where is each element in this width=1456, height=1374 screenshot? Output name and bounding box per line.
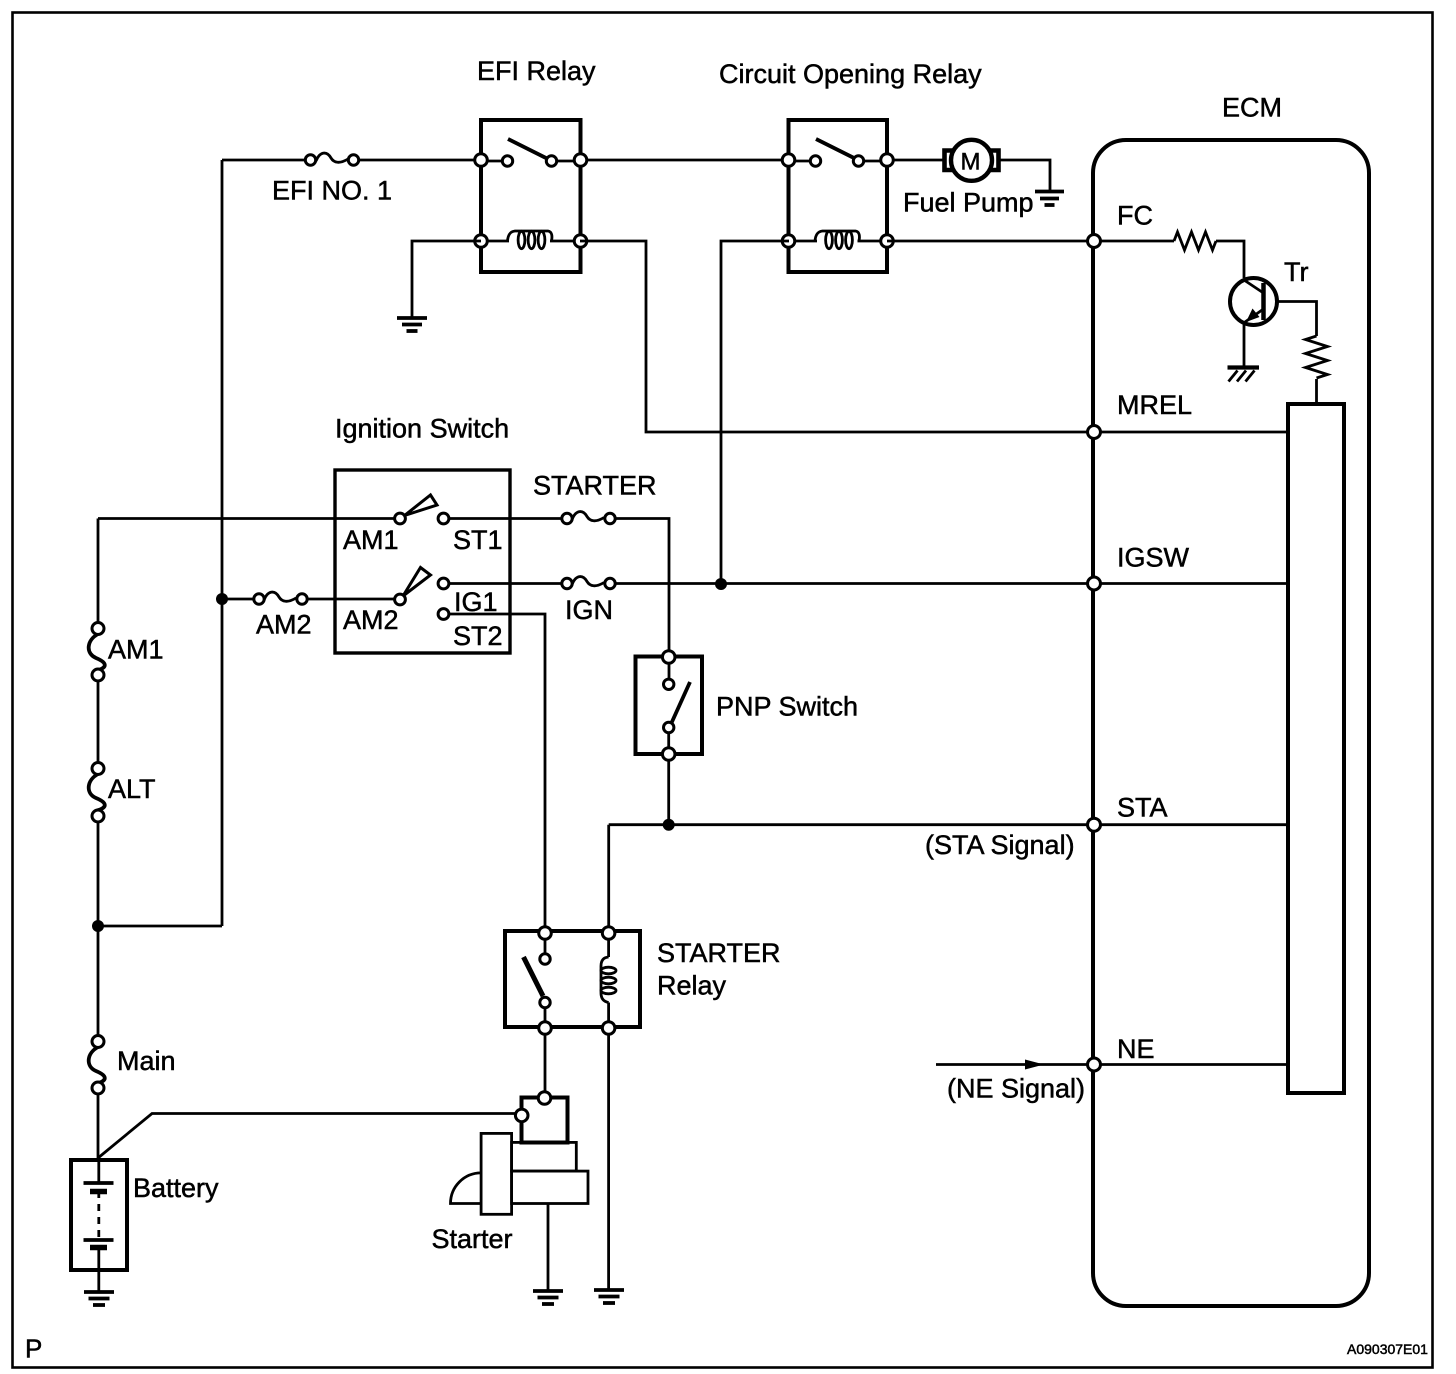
node NE (1088, 1058, 1101, 1071)
wire: bus link to feeder (98, 925, 222, 928)
node junction left bus (92, 920, 104, 932)
svg-text:IGSW: IGSW (1117, 543, 1190, 573)
svg-text:ECM: ECM (1222, 93, 1282, 123)
wire: PNP to STA junction (667, 760, 670, 825)
ground chassis under Tr (1228, 368, 1260, 382)
wire: EFI NO.1 rail left (222, 159, 305, 162)
fuse AM2 (254, 592, 307, 604)
wire: NE signal arrow (936, 1060, 1094, 1070)
svg-text:AM2: AM2 (256, 610, 312, 640)
switch PNP (636, 651, 703, 761)
wire: IG1 to IGN fuse (449, 582, 562, 585)
svg-text:Relay: Relay (657, 971, 727, 1001)
wire: IGSW inside ECM (1094, 582, 1288, 585)
svg-text:(NE Signal): (NE Signal) (947, 1074, 1085, 1104)
node FC (1088, 235, 1101, 248)
wire: left feeder bus x=222 (221, 160, 224, 926)
resistor FC (1174, 232, 1216, 250)
relay EFI Relay (475, 120, 587, 272)
node junction IGSW (715, 578, 727, 590)
wire: ST2 down to starter relay (449, 614, 545, 927)
contact ST2 (438, 609, 449, 620)
wire: relay switch to starter (544, 1034, 547, 1092)
wire: fuse to PNP switch (615, 519, 669, 652)
wire: relay coil to ground (607, 1034, 610, 1290)
svg-text:IG1: IG1 (454, 587, 498, 617)
svg-text:ST2: ST2 (453, 621, 503, 651)
wire: COR to fuel pump (887, 159, 944, 162)
wire: MREL inside ECM (1094, 431, 1288, 434)
svg-text:Starter: Starter (432, 1224, 513, 1254)
svg-text:Battery: Battery (133, 1173, 219, 1203)
svg-text:STA: STA (1117, 793, 1168, 823)
svg-text:Tr: Tr (1284, 257, 1308, 287)
fuse IGN (562, 577, 615, 589)
wire: left bus vertical (97, 519, 100, 630)
svg-text:A090307E01: A090307E01 (1347, 1341, 1428, 1357)
svg-text:Circuit Opening Relay: Circuit Opening Relay (719, 59, 982, 89)
svg-text:MREL: MREL (1117, 390, 1192, 420)
svg-text:IGN: IGN (565, 595, 613, 625)
wire: STA inside ECM (1094, 823, 1288, 826)
wire: AM2 tap to fuse (222, 598, 254, 601)
battery (71, 1160, 127, 1270)
wire: COR coil right to FC node (887, 240, 1094, 243)
fuse STARTER (562, 512, 615, 524)
svg-text:STARTER: STARTER (533, 471, 657, 501)
wire: base to resistor (1277, 302, 1317, 337)
svg-text:EFI NO. 1: EFI NO. 1 (272, 176, 392, 206)
svg-text:ALT: ALT (108, 774, 156, 804)
svg-text:ST1: ST1 (453, 525, 503, 555)
wire: FC node to resistor (1094, 240, 1174, 243)
svg-text:Ignition Switch: Ignition Switch (335, 414, 509, 444)
wire: resistor to transistor (1216, 241, 1244, 278)
node IGSW (1088, 577, 1101, 590)
ECM internal bus bar (1288, 404, 1344, 1093)
svg-text:PNP Switch: PNP Switch (716, 692, 858, 722)
wire: starter to ground (547, 1204, 550, 1292)
svg-text:(STA Signal): (STA Signal) (925, 830, 1075, 860)
svg-text:P: P (25, 1334, 42, 1364)
switch contact AM2 (395, 568, 449, 605)
fuse EFI NO. 1 (305, 153, 358, 165)
ground battery (84, 1292, 114, 1305)
wire: battery to ground (97, 1270, 100, 1292)
motor fuel pump (945, 140, 999, 181)
wire: fuse to EFI relay (359, 159, 481, 162)
node junction STA (663, 819, 675, 831)
wire: emitter to chassis ground (1243, 322, 1246, 366)
svg-text:Fuel Pump: Fuel Pump (903, 188, 1034, 218)
resistor base pulldown (1306, 336, 1328, 378)
fuse Main (89, 1036, 105, 1095)
wire: EFI relay coil to ground (412, 241, 481, 318)
ignition switch box (335, 470, 510, 653)
svg-text:STARTER: STARTER (657, 938, 781, 968)
transistor Tr (1230, 278, 1277, 325)
fuse AM1 (89, 623, 105, 682)
wire: battery diagonal to starter (98, 1114, 516, 1159)
ECM box (1093, 140, 1369, 1306)
ground starter relay (594, 1290, 624, 1303)
wire: pump to ground (999, 160, 1050, 191)
node junction AM2 tap (216, 593, 228, 605)
svg-text:NE: NE (1117, 1034, 1155, 1064)
svg-text:AM1: AM1 (343, 525, 399, 555)
svg-text:AM1: AM1 (108, 635, 164, 665)
wire: AM1 rail from left bus (98, 517, 395, 520)
ground EFI relay (397, 318, 427, 331)
wire: ST1 to STARTER fuse (449, 517, 562, 520)
svg-text:M: M (961, 149, 981, 176)
wire: EFI coil right to MREL (580, 241, 1094, 432)
ground starter (533, 1291, 563, 1304)
node MREL (1088, 426, 1101, 439)
wire: NE inside ECM (1094, 1063, 1288, 1066)
wire: fuse to ignition switch (307, 598, 395, 601)
node STA (1088, 818, 1101, 831)
relay Circuit Opening Relay (782, 120, 893, 272)
svg-text:Main: Main (117, 1046, 176, 1076)
wire: COR coil left down to IGSW junction (721, 241, 789, 584)
fuse ALT (89, 763, 105, 823)
wire: IGN fuse to ECM IGSW (615, 582, 1094, 585)
wire: STA down to starter relay coil (607, 825, 610, 927)
relay starter relay (505, 927, 640, 1035)
svg-text:AM2: AM2 (343, 605, 399, 635)
svg-text:FC: FC (1117, 201, 1153, 231)
wire: EFI relay to Circuit Opening relay (580, 159, 789, 162)
switch contact AM1 (395, 495, 449, 524)
wire: resistor to ECM bus bar (1315, 379, 1318, 404)
ground fuel pump (1035, 192, 1064, 206)
starter motor (451, 1092, 589, 1215)
wire: STA rail (609, 823, 1094, 826)
svg-text:EFI Relay: EFI Relay (477, 56, 596, 86)
